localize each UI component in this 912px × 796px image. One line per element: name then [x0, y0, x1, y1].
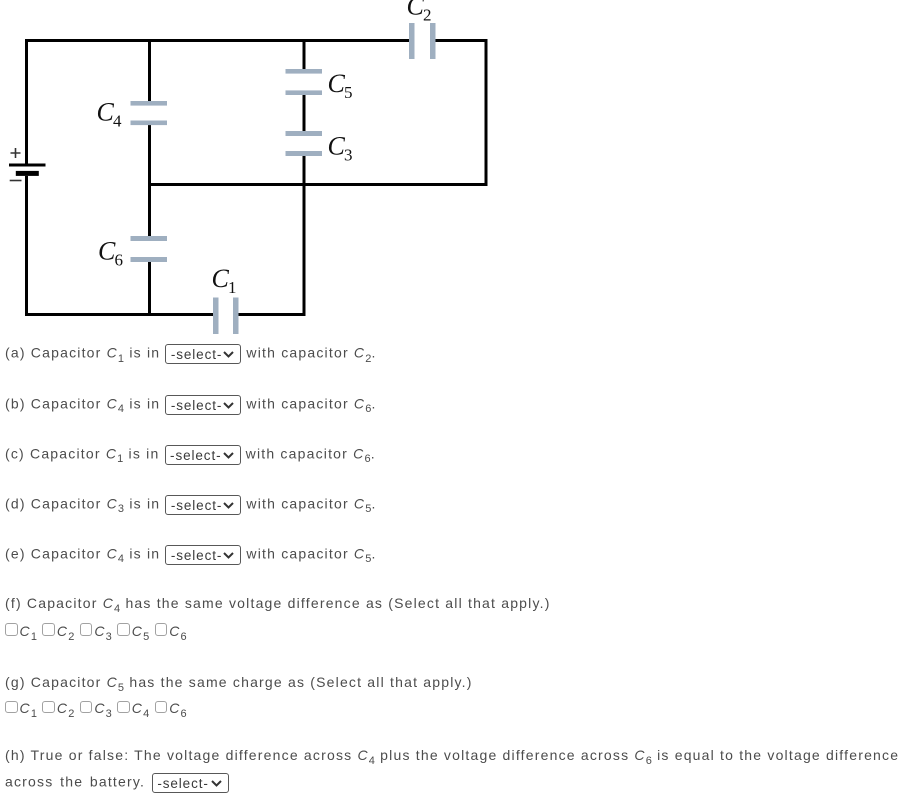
svg-text:2: 2 — [423, 6, 432, 25]
wire: left vertical lower (battery - to bottom wire) — [25, 176, 28, 316]
capacitor C6 — [131, 236, 168, 262]
svg-text:6: 6 — [115, 251, 124, 270]
wire: top horizontal (battery + to C2 left plate) — [25, 39, 409, 42]
question (a) — [5, 344, 377, 364]
svg-text:5: 5 — [344, 83, 353, 102]
wire: bottom horizontal (C1 right plate to node at x=304) — [239, 313, 306, 316]
svg-text:C: C — [328, 132, 346, 161]
question (b) — [5, 395, 377, 415]
checkboxes (f) — [5, 623, 187, 639]
svg-text:4: 4 — [113, 112, 122, 131]
wire: vertical branch x=304 from top wire to C5 top plate — [303, 40, 306, 69]
svg-text:C: C — [97, 98, 115, 127]
svg-text:C: C — [328, 69, 346, 98]
capacitor C2 — [409, 23, 436, 59]
checkboxes (g) — [5, 700, 187, 716]
circuit schematic — [0, 0, 500, 340]
wire: vertical branch x=149 from top wire to C4 top plate — [148, 40, 151, 101]
question (h) line 1 — [5, 747, 899, 763]
wire: vertical branch x=149 from C4 bottom plate to C6 top plate — [148, 125, 151, 236]
svg-text:3: 3 — [344, 146, 353, 165]
wire: middle horizontal (node x=149 to right vertical) — [148, 183, 488, 186]
capacitor C1 — [213, 298, 239, 335]
question (h) line 2 — [5, 773, 229, 793]
question (e) — [5, 545, 377, 565]
wire: vertical branch x=304 between C5 bottom plate and C3 top plate — [303, 95, 306, 131]
capacitor C5 — [286, 69, 323, 95]
svg-text:C: C — [407, 0, 425, 21]
capacitor C4 — [131, 101, 168, 125]
wire: vertical branch x=304 from C3 bottom plate to bottom wire — [303, 156, 306, 316]
svg-text:1: 1 — [228, 278, 237, 297]
wire: right vertical (top-right corner down to middle wire) — [485, 39, 488, 186]
question (d) — [5, 495, 377, 515]
wire: bottom horizontal (battery - to C1 left plate) — [25, 313, 213, 316]
wire: top horizontal (C2 right plate to top-right corner) — [436, 39, 488, 42]
svg-text:C: C — [98, 237, 116, 266]
capacitor C3 — [286, 131, 323, 156]
question (f) — [5, 595, 551, 611]
wire: left vertical upper (top wire to battery +) — [25, 39, 28, 165]
svg-text:C: C — [212, 264, 230, 293]
battery (+ top, - bottom) — [9, 148, 46, 181]
wire: vertical branch x=149 from C6 bottom plate to bottom wire — [148, 262, 151, 316]
question (c) — [5, 445, 376, 465]
question (g) — [5, 674, 473, 690]
